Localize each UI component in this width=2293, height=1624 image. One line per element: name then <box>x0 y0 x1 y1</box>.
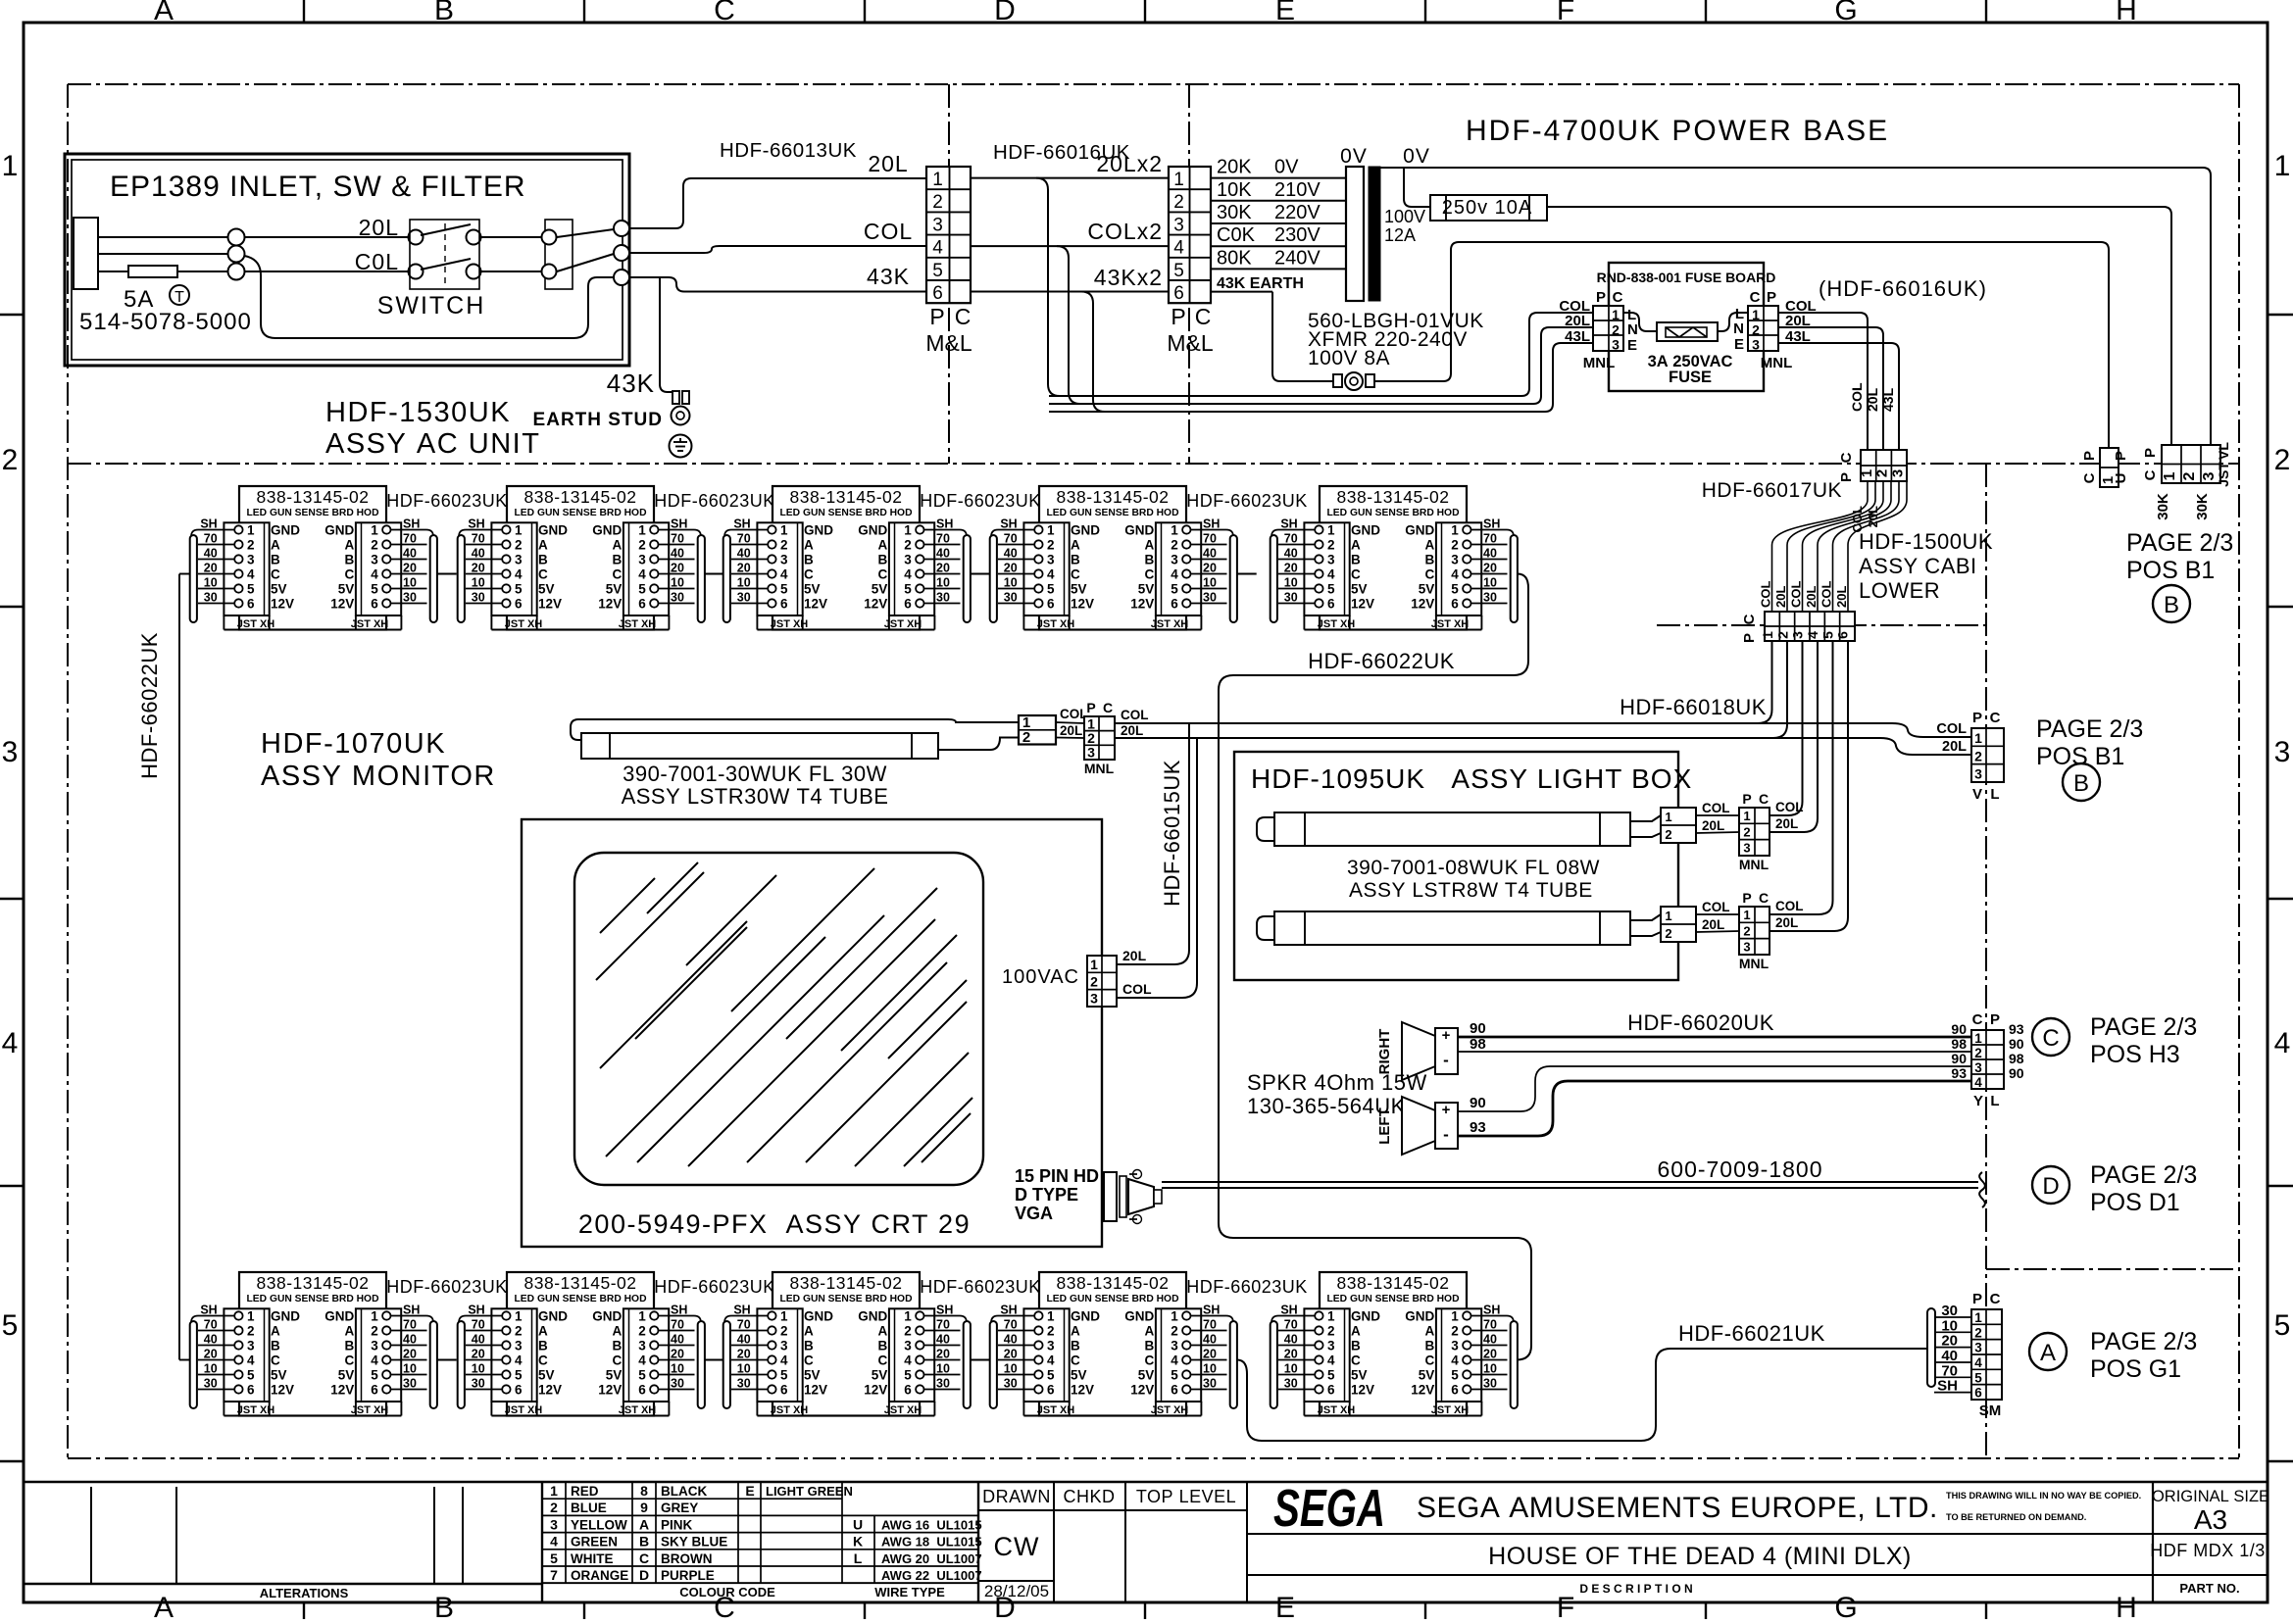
svg-text:2: 2 <box>371 1323 378 1338</box>
svg-text:C: C <box>1351 1353 1361 1367</box>
svg-text:40: 40 <box>1004 1332 1018 1346</box>
svg-text:838-13145-02: 838-13145-02 <box>257 1273 370 1293</box>
svg-text:40: 40 <box>737 1332 751 1346</box>
svg-text:THIS DRAWING WILL IN NO WAY BE: THIS DRAWING WILL IN NO WAY BE COPIED. <box>1946 1491 2141 1501</box>
svg-text:C: C <box>1145 566 1155 581</box>
svg-text:COL: COL <box>1702 801 1730 815</box>
svg-text:30: 30 <box>403 1376 417 1390</box>
svg-text:2: 2 <box>780 537 788 552</box>
svg-text:90: 90 <box>1470 1020 1486 1037</box>
svg-text:T: T <box>174 289 184 306</box>
VGA 15 pin D type connector <box>1104 1170 1162 1224</box>
svg-text:L: L <box>854 1550 863 1566</box>
thermal symbol circle T <box>170 285 189 305</box>
svg-text:(HDF-66016UK): (HDF-66016UK) <box>1819 276 1987 301</box>
svg-text:1: 1 <box>371 1308 378 1323</box>
svg-text:40: 40 <box>671 546 684 560</box>
wire neutral loop to output <box>244 256 614 338</box>
svg-text:12V: 12V <box>1411 596 1434 611</box>
LED gun sense board HOD UB3 (838-13145-02) <box>723 1272 971 1416</box>
svg-text:COLx2: COLx2 <box>1087 219 1163 244</box>
svg-text:1: 1 <box>1327 1308 1335 1323</box>
IEC mains inlet connector <box>74 218 98 289</box>
svg-text:A: A <box>538 1323 548 1338</box>
svg-text:1: 1 <box>1451 522 1459 537</box>
svg-text:JST XH: JST XH <box>505 1404 543 1416</box>
svg-text:B: B <box>434 1592 454 1619</box>
svg-text:1: 1 <box>780 522 788 537</box>
svg-text:6: 6 <box>1451 596 1459 611</box>
svg-text:20L: 20L <box>1866 506 1880 527</box>
svg-text:12A: 12A <box>1384 225 1416 245</box>
svg-text:5: 5 <box>1451 581 1459 596</box>
svg-text:JST XH: JST XH <box>1151 1404 1189 1416</box>
svg-text:HDF-66022UK: HDF-66022UK <box>1308 649 1455 673</box>
svg-text:20L: 20L <box>1834 586 1849 608</box>
svg-text:P: P <box>929 304 944 329</box>
svg-text:P: P <box>1742 791 1751 807</box>
svg-text:LED GUN SENSE BRD HOD: LED GUN SENSE BRD HOD <box>779 508 912 518</box>
svg-text:AWG 22 UL1007: AWG 22 UL1007 <box>881 1568 982 1583</box>
svg-text:1: 1 <box>2 150 19 182</box>
wire harness HDF-66022UK left vertical <box>179 573 190 575</box>
svg-text:2: 2 <box>780 1323 788 1338</box>
CRT assembly box 200-5949-PFX <box>522 819 1102 1247</box>
svg-text:1: 1 <box>780 1308 788 1323</box>
svg-text:HDF-66021UK: HDF-66021UK <box>1678 1321 1825 1346</box>
wires speaker connector jogs <box>1970 1036 1972 1038</box>
wires switch to output terminals <box>481 236 541 238</box>
svg-text:E: E <box>1627 337 1637 354</box>
cable break squiggle <box>1979 1172 1985 1207</box>
svg-text:10: 10 <box>1004 1361 1018 1375</box>
svg-text:GND: GND <box>271 522 300 537</box>
svg-text:5V: 5V <box>872 581 888 596</box>
connector MNL 3-pin tube 30W <box>1084 700 1149 776</box>
svg-text:P: P <box>1972 710 1982 726</box>
svg-text:3: 3 <box>1612 337 1620 353</box>
svg-text:GND: GND <box>1405 522 1434 537</box>
svg-text:GND: GND <box>804 1308 833 1323</box>
svg-text:C0L: C0L <box>355 249 399 274</box>
svg-text:5V: 5V <box>1138 1367 1155 1382</box>
svg-text:SH: SH <box>200 517 217 530</box>
svg-text:838-13145-02: 838-13145-02 <box>1057 487 1170 507</box>
svg-text:+: + <box>1442 1102 1451 1118</box>
svg-text:A: A <box>1071 1323 1080 1338</box>
svg-text:A: A <box>1071 537 1080 552</box>
svg-text:5V: 5V <box>1351 581 1368 596</box>
svg-text:WHITE: WHITE <box>571 1551 614 1566</box>
svg-text:C: C <box>639 1550 649 1566</box>
svg-text:838-13145-02: 838-13145-02 <box>524 487 637 507</box>
svg-text:70: 70 <box>671 1317 684 1331</box>
svg-text:6: 6 <box>515 596 523 611</box>
svg-text:L: L <box>1990 786 1999 803</box>
svg-text:LED GUN SENSE BRD HOD: LED GUN SENSE BRD HOD <box>246 508 378 518</box>
svg-text:12V: 12V <box>864 596 887 611</box>
svg-text:1: 1 <box>1859 469 1875 477</box>
svg-text:2: 2 <box>1752 321 1760 337</box>
svg-text:POS H3: POS H3 <box>2090 1041 2180 1068</box>
svg-text:12V: 12V <box>804 1382 827 1397</box>
svg-text:COL: COL <box>1789 581 1804 609</box>
svg-text:2: 2 <box>371 537 378 552</box>
svg-text:MNL: MNL <box>1739 956 1770 971</box>
wires fuse board out to HDF-66017UK <box>1778 313 1899 466</box>
svg-text:6: 6 <box>904 596 912 611</box>
svg-text:RED: RED <box>571 1484 599 1499</box>
svg-text:12V: 12V <box>1351 1382 1374 1397</box>
reference circle B upper <box>2153 585 2190 622</box>
svg-text:C0K: C0K <box>1217 224 1256 246</box>
svg-text:C: C <box>1990 710 2001 726</box>
svg-text:10: 10 <box>204 1361 218 1375</box>
svg-text:43K: 43K <box>867 264 910 289</box>
svg-text:C: C <box>1741 614 1758 624</box>
svg-text:A: A <box>345 537 355 552</box>
svg-text:3: 3 <box>1087 745 1095 761</box>
svg-text:40: 40 <box>936 1332 950 1346</box>
svg-text:5: 5 <box>638 581 646 596</box>
svg-text:90: 90 <box>1951 1021 1967 1037</box>
svg-text:PINK: PINK <box>661 1517 693 1532</box>
svg-text:GND: GND <box>858 522 887 537</box>
svg-text:JST XH: JST XH <box>619 1404 657 1416</box>
svg-text:A: A <box>1145 1323 1155 1338</box>
svg-text:514-5078-5000: 514-5078-5000 <box>79 309 252 335</box>
svg-text:4: 4 <box>515 566 523 581</box>
svg-text:COL: COL <box>1121 708 1149 722</box>
svg-text:5: 5 <box>780 1367 788 1382</box>
svg-text:10: 10 <box>936 575 950 589</box>
svg-text:1: 1 <box>1171 522 1178 537</box>
fluorescent tube 390-7001-08WUK lower <box>1257 890 1804 971</box>
svg-text:90: 90 <box>2009 1036 2024 1052</box>
svg-text:B: B <box>804 1338 814 1353</box>
svg-text:C: C <box>1990 1291 2001 1307</box>
svg-text:H: H <box>2116 0 2137 26</box>
fuse F1 5A holder <box>128 266 177 277</box>
svg-text:10: 10 <box>936 1361 950 1375</box>
wire 43K to HDF-66013UK pin6 <box>629 277 926 292</box>
svg-text:0V: 0V <box>1340 145 1368 168</box>
harness HDF-66023UK T4-T5 <box>1237 573 1257 575</box>
svg-text:838-13145-02: 838-13145-02 <box>257 487 370 507</box>
svg-text:PAGE 2/3: PAGE 2/3 <box>2090 1013 2197 1041</box>
svg-text:6: 6 <box>371 596 378 611</box>
svg-text:B: B <box>538 552 548 566</box>
svg-text:JST XH: JST XH <box>1151 618 1189 630</box>
svg-text:B: B <box>2164 592 2179 618</box>
svg-text:P: P <box>2113 451 2129 461</box>
svg-text:30: 30 <box>1483 1376 1497 1390</box>
svg-text:1: 1 <box>1087 716 1095 732</box>
svg-text:C: C <box>345 1353 355 1367</box>
svg-text:70: 70 <box>671 531 684 545</box>
svg-text:HDF-1500UK: HDF-1500UK <box>1859 529 1993 554</box>
LED gun sense board HOD UT5 (838-13145-02) <box>1271 486 1518 630</box>
svg-text:P: P <box>1596 289 1606 306</box>
svg-text:M&L: M&L <box>1167 330 1214 356</box>
svg-text:5V: 5V <box>271 581 287 596</box>
svg-text:12V: 12V <box>1351 596 1374 611</box>
svg-text:20L: 20L <box>1865 387 1880 412</box>
svg-text:SH: SH <box>1203 1303 1220 1316</box>
svg-text:10: 10 <box>472 1361 485 1375</box>
svg-text:10: 10 <box>403 1361 417 1375</box>
svg-text:4: 4 <box>1451 1353 1459 1367</box>
svg-text:5: 5 <box>1047 581 1055 596</box>
svg-text:30: 30 <box>403 590 417 604</box>
svg-text:4: 4 <box>780 566 788 581</box>
svg-text:HDF-66023UK: HDF-66023UK <box>386 491 508 511</box>
harness HDF-66018UK pair to page B1 lower <box>1115 723 1971 755</box>
svg-text:12V: 12V <box>538 1382 562 1397</box>
svg-text:U: U <box>853 1516 863 1532</box>
svg-text:MNL: MNL <box>1761 355 1793 371</box>
harness HDF-66023UK T3-T4 <box>971 573 990 575</box>
svg-text:2: 2 <box>1090 973 1098 989</box>
svg-text:DRAWN: DRAWN <box>982 1487 1051 1506</box>
svg-text:HDF-66023UK: HDF-66023UK <box>654 1277 775 1297</box>
svg-text:90: 90 <box>1951 1051 1967 1066</box>
svg-text:4: 4 <box>1173 238 1184 259</box>
svg-text:12V: 12V <box>598 1382 622 1397</box>
svg-text:GND: GND <box>1351 522 1380 537</box>
svg-text:SH: SH <box>733 1303 750 1316</box>
svg-text:P: P <box>1742 890 1751 906</box>
svg-text:N: N <box>1627 321 1638 338</box>
svg-text:2: 2 <box>247 1323 255 1338</box>
svg-text:6: 6 <box>515 1382 523 1397</box>
svg-text:1: 1 <box>1760 631 1775 639</box>
svg-text:70: 70 <box>1284 1317 1298 1331</box>
svg-text:3: 3 <box>247 1338 255 1353</box>
svg-text:93: 93 <box>1470 1119 1486 1136</box>
svg-text:90: 90 <box>1470 1095 1486 1111</box>
svg-text:20: 20 <box>936 1347 950 1360</box>
svg-text:30: 30 <box>472 1376 485 1390</box>
svg-text:FUSE: FUSE <box>1669 369 1712 386</box>
svg-text:20L: 20L <box>1942 739 1967 755</box>
svg-text:HDF-66017UK: HDF-66017UK <box>1702 479 1842 502</box>
svg-text:2: 2 <box>2181 471 2198 480</box>
svg-text:5: 5 <box>247 581 255 596</box>
svg-text:2: 2 <box>515 1323 523 1338</box>
svg-text:1: 1 <box>2162 471 2178 480</box>
svg-text:H: H <box>2116 1592 2137 1619</box>
EP1389 inlet/switch/filter enclosure box <box>65 154 629 366</box>
svg-text:C: C <box>878 1353 888 1367</box>
wire grommet to earth return <box>1374 242 2109 448</box>
svg-text:1: 1 <box>550 1483 558 1499</box>
svg-text:MNL: MNL <box>1583 355 1616 371</box>
svg-text:3: 3 <box>371 552 378 566</box>
svg-text:B: B <box>639 1534 649 1550</box>
svg-text:HDF-66020UK: HDF-66020UK <box>1627 1010 1774 1035</box>
svg-text:2: 2 <box>1327 1323 1335 1338</box>
svg-text:POS B1: POS B1 <box>2036 743 2124 770</box>
svg-text:GND: GND <box>1351 1308 1380 1323</box>
svg-text:20L: 20L <box>1773 586 1788 608</box>
svg-text:70: 70 <box>472 531 485 545</box>
svg-text:P: P <box>2081 451 2098 461</box>
svg-text:838-13145-02: 838-13145-02 <box>790 1273 903 1293</box>
svg-text:C: C <box>1759 791 1769 807</box>
svg-text:30: 30 <box>204 590 218 604</box>
svg-text:A: A <box>538 537 548 552</box>
svg-text:2: 2 <box>1874 469 1891 477</box>
svg-text:2: 2 <box>1774 631 1790 639</box>
svg-text:5: 5 <box>1171 581 1178 596</box>
svg-text:70: 70 <box>1004 1317 1018 1331</box>
svg-text:LED GUN SENSE BRD HOD: LED GUN SENSE BRD HOD <box>779 1294 912 1304</box>
svg-text:2: 2 <box>1451 1323 1459 1338</box>
chain line cabinet lower horizontal y=638 <box>1657 624 1986 626</box>
svg-text:1: 1 <box>247 522 255 537</box>
svg-text:5V: 5V <box>1419 581 1435 596</box>
svg-text:5V: 5V <box>338 1367 355 1382</box>
svg-text:12V: 12V <box>864 1382 887 1397</box>
svg-text:3: 3 <box>932 215 943 235</box>
svg-text:A3: A3 <box>2194 1504 2227 1535</box>
svg-text:B: B <box>1071 1338 1080 1353</box>
connector HDF-66013UK 6-pin P|C M&L <box>925 167 972 356</box>
wires 100VAC to HDF-66015UK <box>1117 723 1189 964</box>
wire transformer to 250v fuse <box>1404 168 1430 207</box>
svg-text:B: B <box>878 1338 888 1353</box>
svg-text:20L: 20L <box>1702 917 1724 932</box>
svg-text:1: 1 <box>1090 957 1098 972</box>
svg-text:40: 40 <box>204 546 218 560</box>
svg-text:P: P <box>1741 633 1758 643</box>
wire 20Lx2 between connectors <box>971 177 1169 179</box>
svg-text:6: 6 <box>247 1382 255 1397</box>
svg-text:A: A <box>613 1323 623 1338</box>
svg-text:30: 30 <box>1284 1376 1298 1390</box>
wire 43K earth branch to earth stud <box>660 277 673 392</box>
svg-text:20: 20 <box>472 1347 485 1360</box>
wire speaker left - 93 <box>1458 1081 1971 1136</box>
svg-text:28/12/05: 28/12/05 <box>984 1582 1049 1600</box>
speaker RIGHT 130-365-564UK <box>1376 1022 1458 1080</box>
svg-text:B: B <box>538 1338 548 1353</box>
svg-text:5: 5 <box>1974 1370 1982 1385</box>
svg-text:20: 20 <box>936 561 950 574</box>
svg-text:3: 3 <box>550 1516 558 1532</box>
svg-text:6: 6 <box>1327 596 1335 611</box>
svg-text:JST XH: JST XH <box>884 618 922 630</box>
svg-text:200-5949-PFX ASSY CRT 29: 200-5949-PFX ASSY CRT 29 <box>578 1209 971 1239</box>
svg-text:AWG 16 UL1015: AWG 16 UL1015 <box>881 1517 982 1532</box>
svg-text:GND: GND <box>804 522 833 537</box>
svg-text:3: 3 <box>515 552 523 566</box>
svg-text:1: 1 <box>1451 1308 1459 1323</box>
svg-text:2: 2 <box>2274 444 2291 476</box>
svg-text:B: B <box>2073 770 2089 797</box>
svg-text:COL: COL <box>1775 899 1804 913</box>
connector MNL fuse board right C|P <box>1733 289 1817 371</box>
svg-text:LED GUN SENSE BRD HOD: LED GUN SENSE BRD HOD <box>1046 1294 1178 1304</box>
svg-text:10: 10 <box>671 1361 684 1375</box>
svg-text:10: 10 <box>1004 575 1018 589</box>
svg-text:POS G1: POS G1 <box>2090 1355 2181 1383</box>
svg-text:LED GUN SENSE BRD HOD: LED GUN SENSE BRD HOD <box>246 1294 378 1304</box>
svg-text:4: 4 <box>932 238 943 259</box>
svg-text:30: 30 <box>737 1376 751 1390</box>
svg-text:HDF MDX 1/3: HDF MDX 1/3 <box>2150 1541 2266 1560</box>
svg-text:6: 6 <box>932 283 943 304</box>
protective earth symbol <box>670 435 692 458</box>
wire speaker right + 90 <box>1458 1036 1971 1039</box>
svg-text:PAGE 2/3: PAGE 2/3 <box>2036 715 2143 743</box>
svg-text:20: 20 <box>1284 1347 1298 1360</box>
svg-text:COL: COL <box>1702 900 1730 914</box>
svg-text:70: 70 <box>1004 531 1018 545</box>
svg-text:SH: SH <box>468 1303 484 1316</box>
connector 100VAC 3-pin on CRT <box>1002 948 1152 1007</box>
svg-text:C: C <box>804 1353 814 1367</box>
svg-text:2: 2 <box>1612 321 1620 337</box>
chain line right column horizontal y=1295 <box>1986 1268 2239 1270</box>
svg-text:C: C <box>1838 452 1855 463</box>
svg-text:E: E <box>1275 1592 1295 1619</box>
svg-text:10: 10 <box>1284 575 1298 589</box>
svg-text:B: B <box>1071 552 1080 566</box>
svg-text:12V: 12V <box>804 596 827 611</box>
chain line vertical x=2026 (page boundary) <box>1985 464 1987 1458</box>
svg-text:JST XH: JST XH <box>1431 1404 1470 1416</box>
svg-text:HDF-66023UK: HDF-66023UK <box>920 491 1041 511</box>
svg-text:2: 2 <box>1047 537 1055 552</box>
svg-text:SH: SH <box>403 517 420 530</box>
svg-text:A: A <box>1145 537 1155 552</box>
svg-text:D TYPE: D TYPE <box>1015 1185 1078 1205</box>
svg-text:ASSY MONITOR: ASSY MONITOR <box>261 761 496 792</box>
svg-text:2: 2 <box>1173 192 1184 213</box>
svg-text:4: 4 <box>1047 566 1055 581</box>
svg-text:43Kx2: 43Kx2 <box>1094 265 1163 290</box>
svg-text:JST XH: JST XH <box>237 1404 275 1416</box>
svg-text:4: 4 <box>2274 1027 2291 1059</box>
svg-text:5: 5 <box>1171 1367 1178 1382</box>
wire fuse to JST VL pin1 <box>1547 207 2171 446</box>
svg-text:12V: 12V <box>1130 596 1154 611</box>
svg-text:20K: 20K <box>1217 157 1252 178</box>
svg-text:4: 4 <box>904 566 912 581</box>
svg-text:12V: 12V <box>330 1382 354 1397</box>
svg-text:2: 2 <box>1974 748 1982 763</box>
LED gun sense board HOD UB2 (838-13145-02) <box>458 1272 705 1416</box>
svg-text:70: 70 <box>403 531 417 545</box>
svg-text:GREEN: GREEN <box>571 1535 618 1550</box>
svg-text:MNL: MNL <box>1739 857 1770 872</box>
svg-text:12V: 12V <box>1071 596 1094 611</box>
svg-text:2: 2 <box>550 1500 558 1515</box>
wire 20L live from inlet <box>98 236 408 238</box>
svg-text:40: 40 <box>1284 1332 1298 1346</box>
svg-text:5V: 5V <box>804 581 821 596</box>
svg-text:5V: 5V <box>1138 581 1155 596</box>
svg-text:D: D <box>639 1567 649 1583</box>
svg-text:5: 5 <box>638 1367 646 1382</box>
svg-text:A: A <box>154 1592 174 1619</box>
svg-text:3: 3 <box>780 1338 788 1353</box>
svg-text:C: C <box>1145 1353 1155 1367</box>
power switch SW1 <box>410 220 479 289</box>
svg-text:1: 1 <box>1974 1310 1982 1325</box>
